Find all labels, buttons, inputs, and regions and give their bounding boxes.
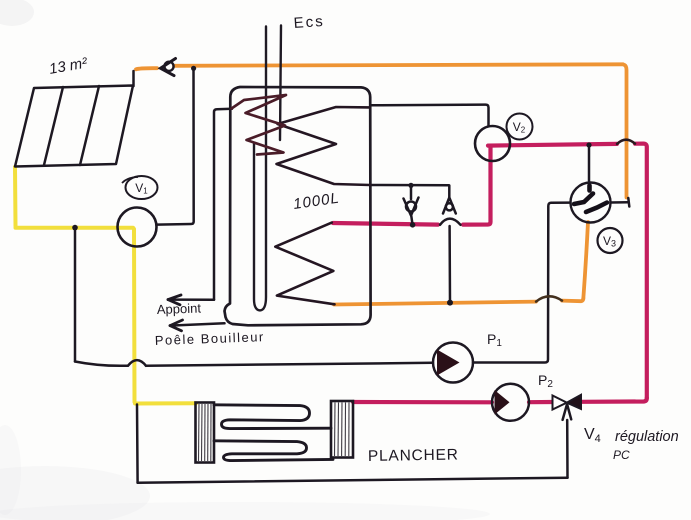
svg-text:V1: V1 (135, 181, 148, 196)
svg-text:V4: V4 (584, 426, 601, 445)
svg-text:Ecs: Ecs (293, 13, 325, 32)
svg-text:PC: PC (613, 448, 630, 462)
svg-text:1000L: 1000L (292, 190, 341, 213)
svg-text:P2: P2 (538, 372, 553, 390)
svg-text:P1: P1 (487, 331, 502, 349)
svg-text:V2: V2 (513, 120, 526, 135)
svg-text:13 m²: 13 m² (48, 54, 90, 78)
svg-text:régulation: régulation (615, 429, 679, 445)
svg-text:V3: V3 (603, 234, 616, 249)
svg-text:Appoint: Appoint (157, 300, 202, 317)
svg-text:Poêle Bouilleur: Poêle Bouilleur (155, 329, 265, 348)
svg-text:PLANCHER: PLANCHER (368, 446, 459, 465)
